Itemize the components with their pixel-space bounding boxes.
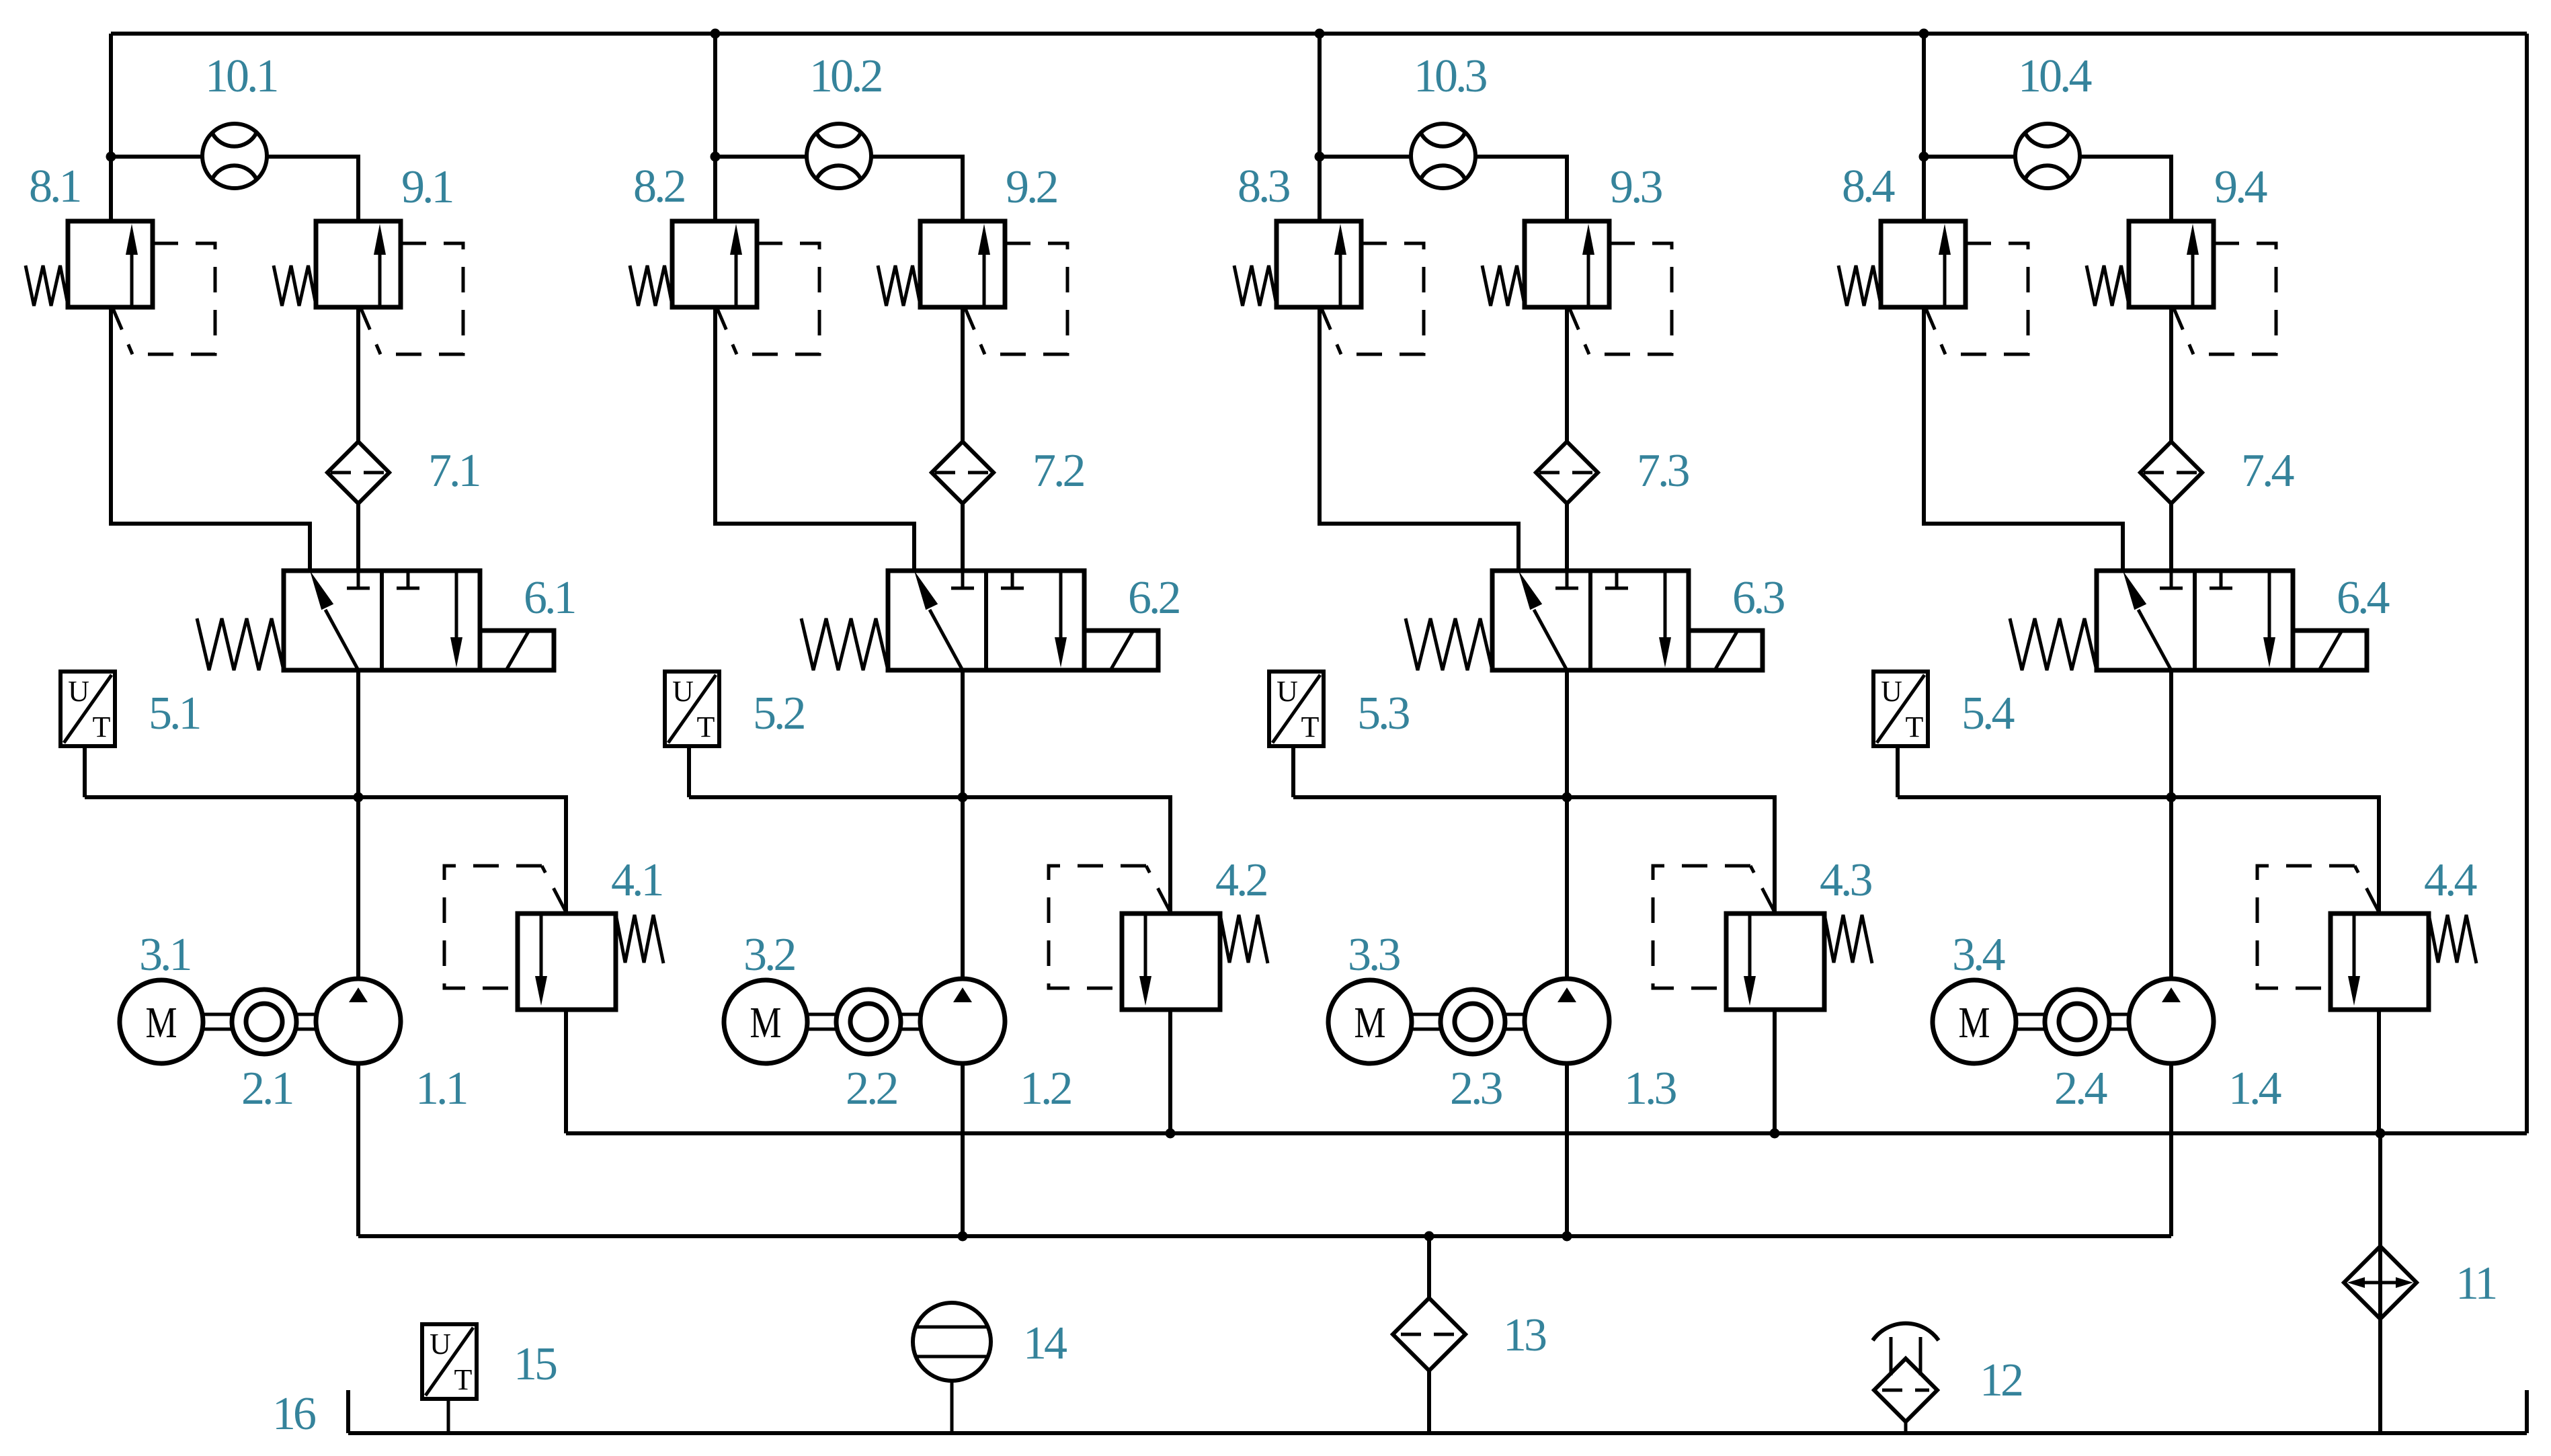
wire sensor 5.2 stub xyxy=(687,746,691,797)
svg-text:16: 16 xyxy=(272,1388,315,1440)
wire into valve 8.2 xyxy=(713,157,717,221)
directional valve 6.4 xyxy=(2010,571,2367,670)
wire filter 7.1 to valve 6.1 xyxy=(356,503,360,571)
wire pump 1.3 suction xyxy=(1565,1063,1569,1236)
svg-text:8.4: 8.4 xyxy=(1842,161,1895,212)
temperature sensor 15 xyxy=(422,1324,477,1433)
junction 4.4 on line A xyxy=(2376,1129,2386,1139)
wire node T4 to pump 1.4 xyxy=(2169,797,2173,979)
level gauge 14 xyxy=(913,1303,991,1433)
label 1.2 xyxy=(1020,1063,1071,1115)
svg-text:10.3: 10.3 xyxy=(1414,50,1487,102)
junction node T1 xyxy=(354,793,364,803)
svg-text:U: U xyxy=(1881,675,1902,708)
svg-text:10.4: 10.4 xyxy=(2018,50,2092,102)
wire pump 1.4 suction xyxy=(2169,1063,2173,1236)
svg-text:3.1: 3.1 xyxy=(139,929,190,981)
wire valve 6.3 to node T3 xyxy=(1565,670,1569,797)
label 3.1 xyxy=(139,929,190,981)
throttle check unit 11 xyxy=(2344,1246,2417,1319)
pressure relief valve 8.1 xyxy=(26,221,215,354)
label 10.3 xyxy=(1414,50,1487,102)
junction node P1 xyxy=(106,152,116,162)
wire return line A xyxy=(566,1131,2527,1135)
svg-text:11: 11 xyxy=(2456,1258,2495,1309)
label 9.2 xyxy=(1006,161,1057,213)
wire into valve 8.1 xyxy=(109,157,113,221)
label 10.1 xyxy=(205,50,277,102)
wire node T3 to pump 1.3 xyxy=(1565,797,1569,979)
svg-text:7.1: 7.1 xyxy=(428,445,479,497)
label 1.4 xyxy=(2228,1063,2281,1115)
pressure sensor 5.3 xyxy=(1269,672,1324,746)
svg-text:9.1: 9.1 xyxy=(401,161,452,213)
label 9.3 xyxy=(1610,161,1662,213)
wire filter 7.2 to valve 6.2 xyxy=(961,503,965,571)
junction node P3 xyxy=(1315,152,1325,162)
wire valve 9.3 to filter 7.3 xyxy=(1565,307,1569,442)
wire valve 4.4 to return line xyxy=(2377,1010,2381,1133)
label 11 xyxy=(2456,1258,2495,1309)
wire valve 8.2 to valve 6.2 xyxy=(715,307,914,571)
wire rail drop branch 3 xyxy=(1318,34,1322,157)
wire filter 7.3 to valve 6.3 xyxy=(1565,503,1569,571)
tank line 16 xyxy=(348,1390,2527,1433)
wire to flow meter 10.1 xyxy=(111,155,203,159)
wire valve 8.3 to valve 6.3 xyxy=(1320,307,1519,571)
svg-text:13: 13 xyxy=(1503,1309,1546,1361)
svg-text:M: M xyxy=(1354,998,1386,1047)
wire valve 4.1 to return line xyxy=(564,1010,568,1133)
label 5.4 xyxy=(1961,688,2015,739)
label 9.1 xyxy=(401,161,452,213)
coupling 2.1 xyxy=(203,989,317,1054)
wire valve 8.1 to valve 6.1 xyxy=(111,307,310,571)
wire pump 1.2 suction xyxy=(961,1063,965,1236)
pressure relief valve 8.3 xyxy=(1234,221,1424,354)
svg-text:2.1: 2.1 xyxy=(241,1063,292,1115)
wire sensor 5.4 stub xyxy=(1896,746,1900,797)
wire valve 6.2 to node T2 xyxy=(961,670,965,797)
label 5.2 xyxy=(753,688,805,739)
svg-text:4.3: 4.3 xyxy=(1820,854,1872,906)
svg-text:7.3: 7.3 xyxy=(1637,445,1689,497)
junction node T4 xyxy=(2167,793,2177,803)
svg-text:U: U xyxy=(1277,675,1298,708)
label 6.3 xyxy=(1732,572,1785,624)
label 9.4 xyxy=(2214,161,2267,213)
directional valve 6.1 xyxy=(197,571,554,670)
svg-text:6.3: 6.3 xyxy=(1732,572,1785,624)
svg-text:U: U xyxy=(672,675,694,708)
svg-text:14: 14 xyxy=(1023,1318,1067,1369)
svg-text:9.2: 9.2 xyxy=(1006,161,1057,213)
wire flow meter to valve 9.3 xyxy=(1475,157,1567,223)
svg-text:1.4: 1.4 xyxy=(2228,1063,2281,1115)
svg-text:T: T xyxy=(697,711,715,743)
pump 1.4 xyxy=(2129,979,2214,1063)
wire valve 4.2 to return line xyxy=(1168,1010,1172,1133)
label 13 xyxy=(1503,1309,1546,1361)
svg-text:T: T xyxy=(1906,711,1924,743)
svg-text:8.3: 8.3 xyxy=(1238,161,1290,212)
label 3.3 xyxy=(1348,929,1400,981)
suction filter 13 xyxy=(1393,1236,1465,1433)
svg-text:6.2: 6.2 xyxy=(1128,572,1180,624)
label 8.3 xyxy=(1238,161,1290,212)
label 1.1 xyxy=(415,1063,467,1115)
label 2.1 xyxy=(241,1063,292,1115)
wire valve 4.4 to tank via 11 xyxy=(2378,1133,2382,1433)
wire pump 1.1 suction xyxy=(356,1063,360,1236)
wire valve 9.4 to filter 7.4 xyxy=(2169,307,2173,442)
label 4.2 xyxy=(1215,854,1267,906)
label 10.4 xyxy=(2018,50,2092,102)
svg-text:M: M xyxy=(1959,998,1990,1047)
svg-text:4.4: 4.4 xyxy=(2424,854,2477,906)
svg-text:T: T xyxy=(93,711,111,743)
label 8.1 xyxy=(29,161,80,212)
svg-text:U: U xyxy=(430,1328,451,1361)
junction 4.2 on line A xyxy=(1166,1129,1176,1139)
label 6.1 xyxy=(524,572,575,624)
junction 4.3 on line A xyxy=(1770,1129,1780,1139)
pressure relief valve 4.3 xyxy=(1653,866,1872,1010)
breather filter 12 xyxy=(1873,1324,1939,1433)
label 16 xyxy=(272,1388,315,1440)
label 3.4 xyxy=(1952,929,2005,981)
wire sensor line branch 1 xyxy=(85,797,566,914)
junction pump 1.3 on bus B xyxy=(1562,1231,1572,1242)
junction node T2 xyxy=(958,793,968,803)
label 4.4 xyxy=(2424,854,2477,906)
label 8.4 xyxy=(1842,161,1895,212)
wire rail drop branch 4 xyxy=(1922,34,1926,157)
svg-text:2.2: 2.2 xyxy=(846,1063,897,1115)
label 14 xyxy=(1023,1318,1067,1369)
svg-text:3.2: 3.2 xyxy=(743,929,795,981)
wire valve 8.4 to valve 6.4 xyxy=(1924,307,2123,571)
label 3.2 xyxy=(743,929,795,981)
wire into valve 8.4 xyxy=(1922,157,1926,221)
wire sensor 5.3 stub xyxy=(1291,746,1295,797)
wire rail drop branch 2 xyxy=(713,34,717,157)
svg-text:5.2: 5.2 xyxy=(753,688,805,739)
label 2.2 xyxy=(846,1063,897,1115)
pump 1.1 xyxy=(316,979,401,1063)
svg-text:8.1: 8.1 xyxy=(29,161,80,212)
wire suction bus B xyxy=(358,1234,2171,1238)
svg-text:3.3: 3.3 xyxy=(1348,929,1400,981)
svg-text:8.2: 8.2 xyxy=(633,161,685,212)
motor 3.3 xyxy=(1328,980,1412,1063)
pressure sensor 5.2 xyxy=(665,672,719,746)
wire to flow meter 10.2 xyxy=(715,155,807,159)
pump 1.2 xyxy=(920,979,1005,1063)
pressure sensor 5.1 xyxy=(60,672,115,746)
svg-text:10.1: 10.1 xyxy=(205,50,277,102)
pressure relief valve 4.4 xyxy=(2257,866,2476,1010)
svg-text:2.3: 2.3 xyxy=(1450,1063,1502,1115)
pressure relief valve 9.4 xyxy=(2087,221,2276,354)
wire rail drop branch 1 xyxy=(109,34,113,157)
label 7.2 xyxy=(1032,445,1084,497)
pump 1.3 xyxy=(1525,979,1609,1063)
pressure sensor 5.4 xyxy=(1873,672,1928,746)
label 12 xyxy=(1980,1354,2022,1406)
svg-text:T: T xyxy=(454,1363,473,1396)
pressure relief valve 4.1 xyxy=(444,866,663,1010)
wire valve 6.4 to node T4 xyxy=(2169,670,2173,797)
coupling 2.2 xyxy=(807,989,921,1054)
motor 3.4 xyxy=(1933,980,2016,1063)
motor 3.1 xyxy=(120,980,203,1063)
svg-text:10.2: 10.2 xyxy=(809,50,882,102)
flow meter 10.2 xyxy=(807,124,871,188)
filter 7.2 xyxy=(932,442,994,503)
svg-text:4.2: 4.2 xyxy=(1215,854,1267,906)
pressure relief valve 9.1 xyxy=(274,221,463,354)
pressure relief valve 8.4 xyxy=(1838,221,2028,354)
flow meter 10.3 xyxy=(1411,124,1475,188)
junction filter 13 on bus B xyxy=(1424,1231,1434,1242)
junction node P2 xyxy=(711,152,721,162)
label 5.3 xyxy=(1357,688,1410,739)
wire node T1 to pump 1.1 xyxy=(356,797,360,979)
label 7.3 xyxy=(1637,445,1689,497)
svg-text:9.3: 9.3 xyxy=(1610,161,1662,213)
coupling 2.3 xyxy=(1412,989,1525,1054)
wire sensor line branch 3 xyxy=(1293,797,1775,914)
wire right bus down xyxy=(2525,34,2529,1133)
label 4.3 xyxy=(1820,854,1872,906)
svg-text:1.1: 1.1 xyxy=(415,1063,467,1115)
svg-text:T: T xyxy=(1301,711,1320,743)
motor 3.2 xyxy=(724,980,807,1063)
filter 7.3 xyxy=(1536,442,1598,503)
svg-text:15: 15 xyxy=(514,1338,557,1390)
wire flow meter to valve 9.1 xyxy=(266,157,358,223)
svg-text:6.4: 6.4 xyxy=(2337,572,2390,624)
svg-text:9.4: 9.4 xyxy=(2214,161,2267,213)
label 6.2 xyxy=(1128,572,1180,624)
pressure relief valve 4.2 xyxy=(1049,866,1268,1010)
svg-text:12: 12 xyxy=(1980,1354,2022,1406)
svg-text:5.3: 5.3 xyxy=(1357,688,1410,739)
svg-text:5.1: 5.1 xyxy=(149,688,200,739)
wire sensor line branch 4 xyxy=(1898,797,2379,914)
wire to flow meter 10.4 xyxy=(1924,155,2016,159)
wire valve 9.1 to filter 7.1 xyxy=(356,307,360,442)
wire flow meter to valve 9.2 xyxy=(870,157,963,223)
wire valve 4.3 to return line xyxy=(1773,1010,1777,1133)
label 7.4 xyxy=(2241,445,2294,497)
wire node T2 to pump 1.2 xyxy=(961,797,965,979)
filter 7.1 xyxy=(327,442,389,503)
junction pump 1.2 on bus B xyxy=(958,1231,968,1242)
junction node T3 xyxy=(1562,793,1572,803)
wire sensor line branch 2 xyxy=(689,797,1170,914)
label 10.2 xyxy=(809,50,882,102)
pressure relief valve 8.2 xyxy=(630,221,819,354)
label 1.3 xyxy=(1624,1063,1676,1115)
label 8.2 xyxy=(633,161,685,212)
directional valve 6.3 xyxy=(1406,571,1763,670)
junction node P4 xyxy=(1919,152,1929,162)
coupling 2.4 xyxy=(2016,989,2130,1054)
label 15 xyxy=(514,1338,557,1390)
pressure relief valve 9.3 xyxy=(1482,221,1672,354)
filter 7.4 xyxy=(2140,442,2202,503)
label 2.4 xyxy=(2054,1063,2107,1115)
flow meter 10.1 xyxy=(202,124,267,188)
pressure relief valve 9.2 xyxy=(878,221,1067,354)
label 7.1 xyxy=(428,445,479,497)
svg-text:7.4: 7.4 xyxy=(2241,445,2294,497)
wire into valve 8.3 xyxy=(1318,157,1322,221)
svg-text:5.4: 5.4 xyxy=(1961,688,2015,739)
svg-text:M: M xyxy=(750,998,782,1047)
label 4.1 xyxy=(611,854,662,906)
wire valve 9.2 to filter 7.2 xyxy=(961,307,965,442)
directional valve 6.2 xyxy=(801,571,1158,670)
svg-text:U: U xyxy=(68,675,89,708)
svg-text:2.4: 2.4 xyxy=(2054,1063,2107,1115)
label 6.4 xyxy=(2337,572,2390,624)
junction top bus branch 4 xyxy=(1919,29,1929,39)
svg-text:7.2: 7.2 xyxy=(1032,445,1084,497)
flow meter 10.4 xyxy=(2015,124,2080,188)
wire top pressure bus xyxy=(111,32,2527,36)
wire filter 7.4 to valve 6.4 xyxy=(2169,503,2173,571)
svg-text:4.1: 4.1 xyxy=(611,854,662,906)
svg-text:3.4: 3.4 xyxy=(1952,929,2005,981)
svg-text:1.2: 1.2 xyxy=(1020,1063,1071,1115)
svg-text:1.3: 1.3 xyxy=(1624,1063,1676,1115)
wire to flow meter 10.3 xyxy=(1320,155,1412,159)
junction top bus branch 2 xyxy=(711,29,721,39)
label 5.1 xyxy=(149,688,200,739)
wire flow meter to valve 9.4 xyxy=(2079,157,2171,223)
junction top bus branch 3 xyxy=(1315,29,1325,39)
svg-text:M: M xyxy=(146,998,177,1047)
svg-text:6.1: 6.1 xyxy=(524,572,575,624)
wire sensor 5.1 stub xyxy=(83,746,87,797)
label 2.3 xyxy=(1450,1063,1502,1115)
wire valve 6.1 to node T1 xyxy=(356,670,360,797)
